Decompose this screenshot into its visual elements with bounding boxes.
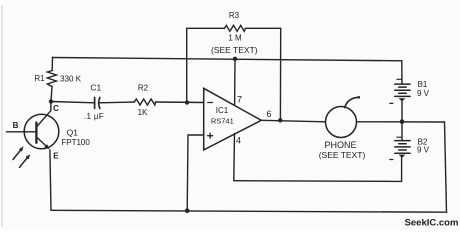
wire pin 4 rail to battery B2 minus: [234, 158, 402, 182]
svg-text:B1: B1: [418, 80, 428, 89]
svg-text:R2: R2: [138, 84, 149, 93]
phone earpiece: [326, 96, 361, 138]
resistor R3: [187, 25, 281, 31]
scan edge artifact: [1, 6, 3, 226]
svg-text:1K: 1K: [138, 108, 148, 117]
op-amp IC1: [204, 88, 262, 150]
svg-text:PHONE: PHONE: [324, 140, 356, 150]
svg-text:C1: C1: [90, 83, 101, 93]
capacitor C1: [95, 97, 100, 108]
wire pin 7 to rail: [234, 59, 236, 105]
transistor Q1: [7, 102, 59, 211]
svg-text:RS741: RS741: [211, 117, 234, 126]
battery B2: [390, 122, 410, 160]
wire R3 right stub to output: [279, 28, 281, 120]
wire collector node to C1: [51, 102, 94, 103]
node pin 7 rail junction: [233, 57, 237, 61]
svg-text:(SEE TEXT): (SEE TEXT): [211, 45, 258, 55]
wire C1 to R2: [100, 101, 135, 104]
node collector junction: [49, 99, 53, 103]
svg-text:330 K: 330 K: [60, 74, 82, 83]
svg-text:9 V: 9 V: [417, 89, 430, 98]
svg-text:FPT100: FPT100: [61, 138, 90, 147]
svg-text:R3: R3: [229, 11, 240, 20]
svg-text:.1 µF: .1 µF: [84, 112, 104, 121]
svg-text:4: 4: [236, 136, 241, 146]
light arrow 1: [13, 146, 24, 159]
svg-text:SeekIC.com: SeekIC.com: [405, 217, 459, 228]
wire pin 4 down: [233, 134, 236, 181]
node noninverting bottom junction: [185, 208, 190, 213]
svg-text:E: E: [53, 152, 59, 161]
wire R3 left stub: [186, 28, 188, 102]
svg-text:1 M: 1 M: [228, 34, 242, 43]
resistor R2: [134, 99, 155, 105]
node output junction: [278, 118, 282, 122]
svg-text:B: B: [13, 121, 19, 130]
wire R2 to inverting input: [156, 101, 204, 104]
svg-text:6: 6: [266, 109, 271, 119]
resistor R1: [47, 58, 56, 102]
wire bottom rail: [51, 210, 447, 212]
svg-text:R1: R1: [34, 74, 45, 83]
wire phone to battery junction and right edge: [357, 122, 447, 212]
svg-text:7: 7: [237, 95, 242, 105]
svg-text:IC1: IC1: [216, 106, 229, 115]
svg-text:9 V: 9 V: [417, 146, 430, 155]
wire noninverting input: [187, 135, 204, 211]
svg-text:(SEE TEXT): (SEE TEXT): [319, 150, 366, 160]
svg-text:Q1: Q1: [67, 127, 79, 137]
battery B1: [390, 61, 410, 122]
wire top supply rail: [53, 58, 402, 61]
svg-text:C: C: [53, 104, 59, 113]
node battery junction: [400, 119, 405, 124]
light arrow 2: [20, 154, 31, 167]
node inverting input junction: [185, 100, 189, 104]
wire output to phone: [261, 120, 325, 122]
